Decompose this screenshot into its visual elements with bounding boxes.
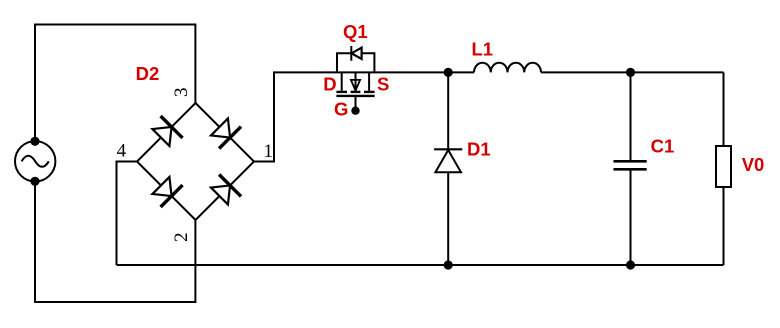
channel bar left	[336, 91, 347, 93]
diode D2 top-left (4 to 3)	[150, 116, 183, 149]
capacitor C1 top plate	[614, 160, 647, 163]
wire node 1 stub up to top rail	[254, 72, 474, 161]
wire C1 branch lower	[630, 170, 632, 265]
wire V0 branch upper	[723, 72, 725, 146]
capacitor C1 bottom plate	[614, 168, 647, 171]
wire bottom rail	[117, 264, 724, 266]
MOSFET Q1	[336, 46, 374, 115]
body diode loop	[337, 53, 374, 72]
junction dot D1 bottom	[444, 260, 453, 269]
svg-text:V0: V0	[742, 154, 765, 175]
gate lead	[355, 96, 357, 107]
junction dot C1 bottom	[626, 260, 635, 269]
svg-text:4: 4	[117, 140, 127, 161]
svg-text:S: S	[377, 73, 389, 94]
wire V0 branch lower	[723, 187, 725, 265]
svg-text:3: 3	[171, 87, 192, 97]
svg-text:Q1: Q1	[343, 21, 368, 42]
wire C1 branch upper	[630, 72, 632, 160]
junction dot AC top terminal	[30, 137, 39, 146]
svg-text:L1: L1	[472, 38, 494, 59]
junction dot AC bottom terminal	[30, 177, 39, 186]
channel bar middle	[351, 91, 361, 93]
wire top rail right of L1	[541, 71, 724, 73]
substrate lead	[355, 72, 357, 92]
AC source V1	[15, 141, 55, 181]
wire node 4 stub to bottom rail	[117, 162, 138, 266]
diode D2 bottom-right (2 to 1)	[208, 174, 241, 207]
svg-text:D: D	[323, 73, 336, 94]
diode D1 triangle	[435, 150, 461, 172]
wire AC bottom loop	[35, 181, 195, 302]
svg-text:D1: D1	[467, 138, 491, 159]
channel bar right	[364, 91, 375, 93]
svg-text:G: G	[334, 98, 348, 119]
substrate arrow	[351, 80, 360, 91]
drain stub	[341, 72, 343, 90]
body diode triangle	[352, 48, 362, 59]
svg-text:C1: C1	[651, 136, 675, 157]
bridge rectifier D2 diamond wires	[137, 103, 254, 220]
junction dot C1 top	[626, 68, 635, 77]
diode D2 bottom-left (4 to 2)	[150, 174, 183, 207]
junction dot switch node	[444, 68, 453, 77]
wire D1 branch upper	[447, 72, 449, 149]
source stub	[368, 72, 370, 90]
wire AC top loop	[35, 25, 195, 142]
diode D1 cathode bar	[434, 148, 462, 150]
resistor V0 body	[716, 146, 731, 187]
svg-text:1: 1	[264, 141, 274, 162]
gate bar	[336, 95, 374, 97]
diode D2 top-right (3 to 1)	[208, 116, 241, 149]
svg-text:D2: D2	[136, 63, 160, 84]
body diode cathode bar	[350, 46, 352, 61]
svg-text:2: 2	[171, 232, 192, 242]
wire D1 branch lower	[447, 172, 449, 265]
gate terminal dot	[351, 107, 359, 115]
inductor L1	[474, 63, 541, 73]
